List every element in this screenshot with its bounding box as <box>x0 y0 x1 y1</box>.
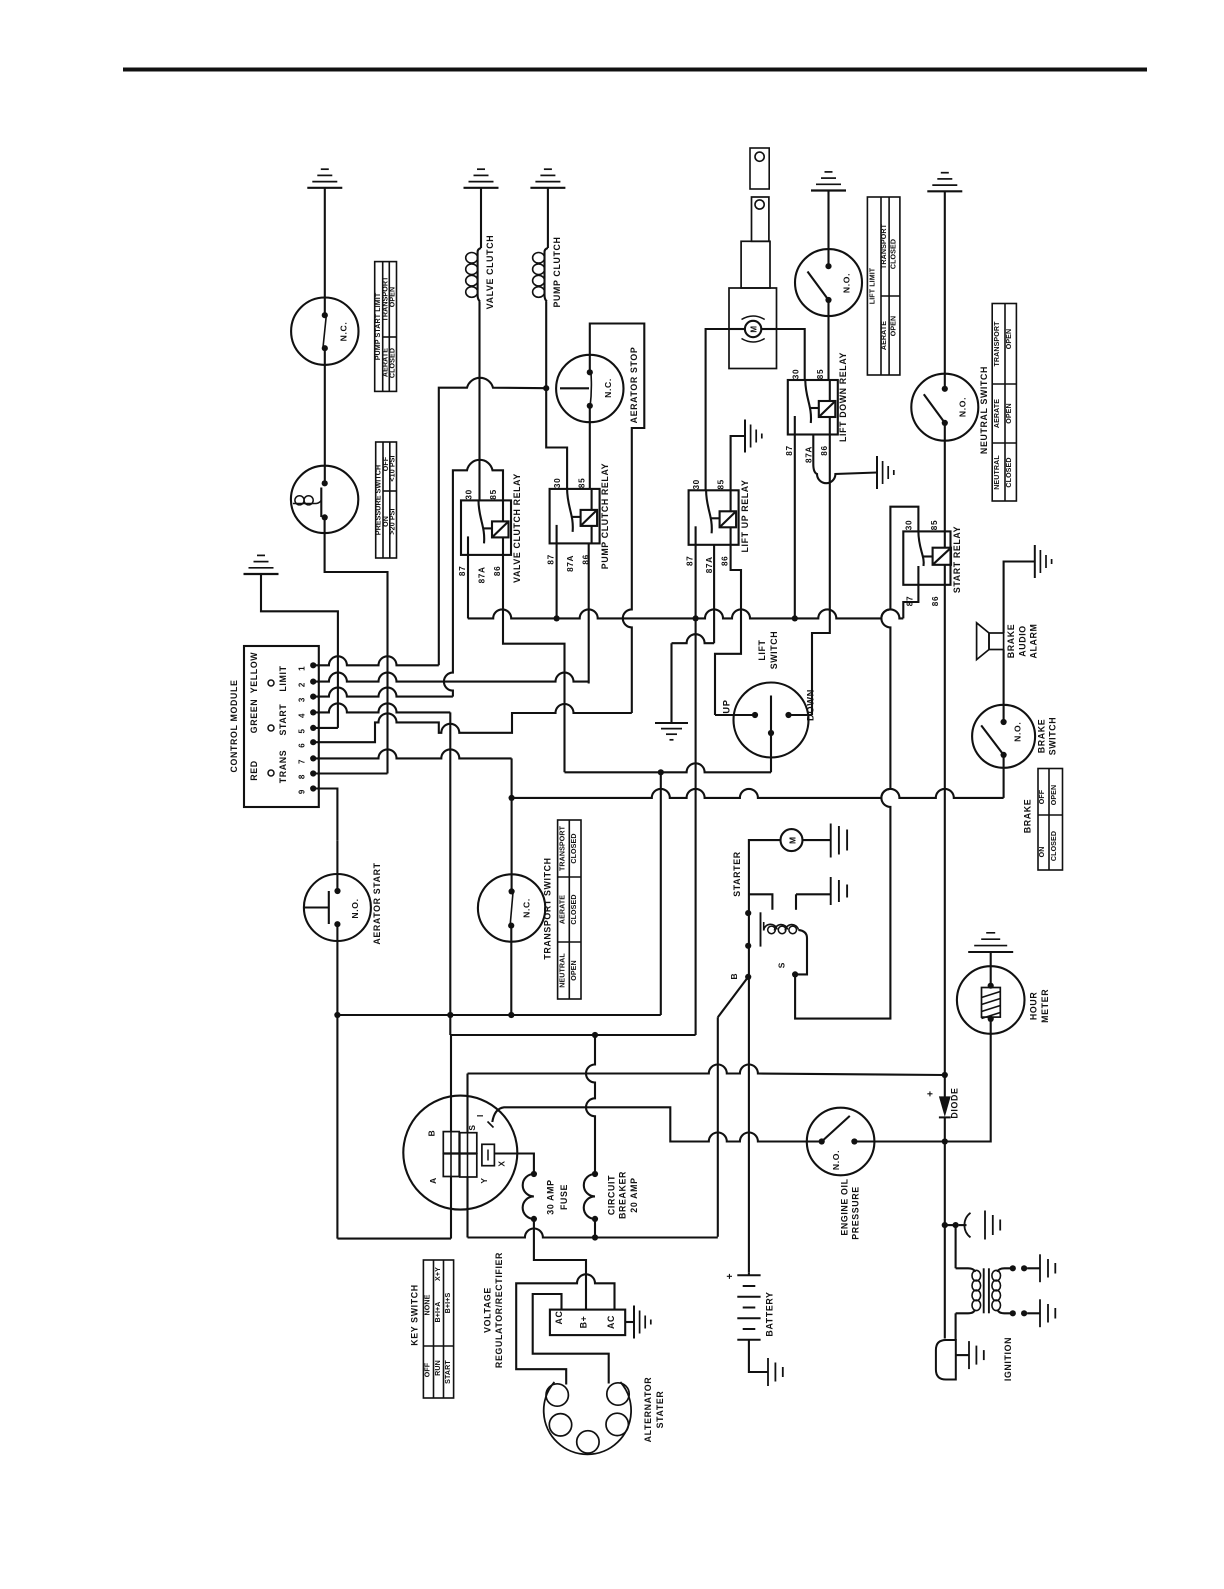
svg-text:VOLTAGE: VOLTAGE <box>482 1287 492 1333</box>
wire lift up relay 86 to lift switch UP <box>715 545 741 715</box>
svg-text:S: S <box>777 962 787 968</box>
ground (brake audio alarm) <box>1035 545 1052 578</box>
svg-text:NEUTRAL: NEUTRAL <box>558 953 566 988</box>
wire pin 1 to pump clutch node (arch over valve wire) <box>439 378 546 665</box>
meter HOUR METER <box>957 966 1025 1034</box>
wire lift down relay 87 to bus1 <box>794 435 796 619</box>
svg-text:87: 87 <box>458 566 467 576</box>
svg-text:NONE: NONE <box>424 1294 432 1315</box>
control module pin 8 <box>310 770 316 776</box>
junction dot ignition feed <box>942 1222 948 1228</box>
wire valve clutch coil to valve relay 30 <box>478 302 480 501</box>
svg-text:N.O.: N.O. <box>350 898 360 918</box>
switch TRANSPORT SWITCH (N.C.) <box>478 874 545 941</box>
svg-text:CIRCUIT: CIRCUIT <box>606 1175 616 1215</box>
control module pin 1 <box>310 662 316 668</box>
svg-text:PUMP CLUTCH RELAY: PUMP CLUTCH RELAY <box>600 463 610 569</box>
alternator stator arc <box>544 1382 631 1454</box>
svg-text:TRANSPORT: TRANSPORT <box>880 223 888 269</box>
svg-text:87A: 87A <box>566 555 575 572</box>
wire breaker bottom to main bus <box>594 1219 596 1238</box>
wire ground to hour meter <box>990 952 992 967</box>
wire pump clutch coil to junction <box>545 302 547 389</box>
ground (lift limit) <box>811 172 846 191</box>
wire solenoid to S terminal <box>795 930 807 975</box>
junction dot common rail / transport riser <box>658 769 664 775</box>
bus wire R (key A / switches) <box>337 1014 660 1016</box>
wire aerator stop bottom through pump relay coil (85/86) <box>589 406 591 489</box>
svg-text:YELLOW: YELLOW <box>249 652 259 694</box>
actuator mid section <box>741 241 770 288</box>
wire motor right to lift down relay 30 <box>777 329 805 380</box>
junction dot breaker / main bus <box>592 1234 598 1240</box>
wire riser bus1 to key-B feed <box>695 618 697 1035</box>
ground (valve clutch) <box>464 169 499 188</box>
wire key B internal <box>450 1132 452 1177</box>
LED yellow <box>268 680 274 686</box>
svg-text:PRESSURE: PRESSURE <box>851 1186 861 1240</box>
svg-text:I: I <box>475 1114 485 1117</box>
svg-text:X: X <box>497 1160 507 1166</box>
svg-text:OPEN: OPEN <box>1005 329 1013 350</box>
svg-text:M: M <box>788 836 798 844</box>
svg-text:CLOSED: CLOSED <box>1050 831 1058 861</box>
connector dot ignition <box>953 1222 959 1228</box>
svg-text:+: + <box>725 1273 736 1280</box>
svg-text:TRANS: TRANS <box>278 750 288 784</box>
relay VALVE CLUTCH RELAY <box>461 500 511 555</box>
box CONTROL MODULE <box>244 646 319 807</box>
wire lift up relay 85 to ground <box>731 436 745 490</box>
wire pin 3 to valve relay 85 riser <box>313 688 453 697</box>
svg-text:7: 7 <box>298 759 307 764</box>
wire starter ground stub <box>795 894 797 910</box>
switch LIFT LIMIT (N.O.) <box>795 249 862 316</box>
label table PRESSURE SWITCH <box>376 442 397 558</box>
junction dot R-bus pin4 riser <box>447 1012 453 1018</box>
relay START RELAY <box>903 531 950 584</box>
wire ground to lift limit switch <box>827 191 829 267</box>
svg-text:PUMP CLUTCH: PUMP CLUTCH <box>552 236 562 307</box>
svg-text:AERATOR STOP: AERATOR STOP <box>629 347 639 424</box>
wire lift down relay 87A to ground (dip under 86 wire) <box>813 435 877 484</box>
wire aerator start top <box>336 841 338 891</box>
svg-text:DIODE: DIODE <box>949 1087 959 1118</box>
label table TRANSPORT SWITCH <box>558 820 581 999</box>
svg-text:85: 85 <box>578 478 587 488</box>
connector plug (lift actuator) <box>750 148 769 189</box>
svg-text:KEY SWITCH: KEY SWITCH <box>410 1284 420 1346</box>
switch KEY SWITCH <box>403 1096 517 1210</box>
actuator upper tab <box>752 197 769 241</box>
svg-text:OPEN: OPEN <box>890 316 898 337</box>
ground (neutral switch) <box>927 173 962 192</box>
ground (secondary top) <box>1039 1254 1041 1282</box>
ground (lift down relay 87A) <box>877 456 894 489</box>
svg-text:1: 1 <box>298 666 307 671</box>
svg-text:OFF: OFF <box>424 1362 432 1377</box>
bus wire main left (key A) <box>337 1238 451 1240</box>
svg-text:Y: Y <box>479 1177 489 1183</box>
wire pin 6 jog <box>313 704 632 742</box>
svg-text:>20 PSI: >20 PSI <box>389 508 397 534</box>
svg-text:AUDIO: AUDIO <box>1017 625 1027 657</box>
starter contacts <box>745 910 751 916</box>
wire starter M left <box>749 840 781 895</box>
junction dot lift up relay 87 / bus1 <box>693 615 699 621</box>
svg-text:30: 30 <box>553 478 562 488</box>
label table LIFT LIMIT <box>867 197 900 375</box>
svg-text:30: 30 <box>465 489 474 499</box>
wire lift switch common <box>770 733 772 772</box>
wire key S/Y column <box>467 1133 469 1177</box>
wire key A down to left bus <box>450 1177 452 1239</box>
svg-text:LIFT DOWN RELAY: LIFT DOWN RELAY <box>838 352 848 442</box>
svg-text:A: A <box>428 1177 438 1184</box>
wire ground to pump start limit switch <box>324 188 326 315</box>
wire pump start limit to pressure switch <box>324 348 326 483</box>
svg-text:ON: ON <box>1038 847 1046 858</box>
svg-text:TRANSPORT: TRANSPORT <box>558 825 566 871</box>
switch AERATOR START (N.O.) <box>304 874 371 941</box>
svg-text:HOUR: HOUR <box>1028 992 1038 1021</box>
svg-text:TRANSPORT SWITCH: TRANSPORT SWITCH <box>543 857 553 959</box>
wire pump relay 87 to bus1 <box>556 544 558 618</box>
svg-text:86: 86 <box>721 556 730 566</box>
wire ground to valve clutch coil <box>480 188 482 248</box>
wire ignition capacitor link <box>945 1224 956 1226</box>
wire pin 4 to R-bus riser <box>313 703 450 712</box>
control module pin 5 <box>310 725 316 731</box>
wire regulator ground stub <box>625 1321 634 1323</box>
switch PRESSURE SWITCH <box>291 466 358 533</box>
wire alarm to brake switch <box>1003 650 1005 723</box>
switch AERATOR STOP (N.C.) <box>556 355 623 422</box>
wire oil pressure right to diode node <box>854 1140 944 1142</box>
motor M (lift) <box>745 321 761 337</box>
coil VALVE CLUTCH <box>478 248 481 302</box>
ground (voltage regulator) <box>634 1306 651 1339</box>
svg-text:87A: 87A <box>705 556 714 573</box>
ignition coil core <box>983 1268 985 1313</box>
svg-text:VALVE CLUTCH: VALVE CLUTCH <box>485 235 495 309</box>
wire alarm to ground <box>1004 562 1035 634</box>
svg-text:NEUTRAL: NEUTRAL <box>993 455 1001 490</box>
svg-text:AERATE: AERATE <box>558 895 566 924</box>
svg-text:85: 85 <box>816 369 825 379</box>
svg-text:OFF: OFF <box>1038 789 1046 804</box>
svg-text:30: 30 <box>904 520 913 530</box>
svg-text:DOWN: DOWN <box>806 689 816 721</box>
wire pin 2 to pump relay 86 <box>313 673 589 682</box>
wire pin 9 to aerator start <box>313 789 337 841</box>
svg-text:30: 30 <box>791 369 800 379</box>
ground (starter M) <box>830 824 832 858</box>
switch ENGINE OIL PRESSURE (N.O.) <box>807 1108 875 1176</box>
wire brake switch bottom to bus <box>1003 755 1005 798</box>
svg-text:AC: AC <box>606 1315 616 1329</box>
wire aerator column down <box>336 1015 338 1239</box>
svg-text:ALTERNATOR: ALTERNATOR <box>643 1377 653 1443</box>
svg-text:CLOSED: CLOSED <box>1005 457 1013 487</box>
ground (pump start limit) <box>307 169 342 188</box>
svg-text:STARTER: STARTER <box>732 851 742 896</box>
wire pin 1 <box>313 656 439 665</box>
ground (lift up relay 85) <box>745 420 762 453</box>
wire B diagonal <box>718 977 748 1017</box>
ignition coil secondary <box>992 1270 1001 1281</box>
svg-text:AERATE: AERATE <box>993 399 1001 428</box>
svg-text:N.O.: N.O. <box>842 273 852 293</box>
wire lift up relay 87A to bus2 <box>713 545 715 643</box>
wire pin 8 <box>313 772 387 774</box>
relay LIFT DOWN RELAY <box>788 380 838 435</box>
label table KEY SWITCH <box>423 1260 453 1398</box>
svg-text:FUSE: FUSE <box>559 1184 569 1210</box>
switch NEUTRAL SWITCH (N.O.) <box>911 374 978 441</box>
wire fuse bottom to regulator B+ <box>534 1219 586 1310</box>
svg-text:20 AMP: 20 AMP <box>629 1177 639 1212</box>
ground (secondary bottom) <box>1039 1299 1041 1327</box>
capacitor (ignition condenser) <box>959 1224 967 1226</box>
svg-text:87: 87 <box>547 554 556 564</box>
wire battery positive riser <box>748 977 750 1273</box>
wire pin 5 to module ground riser <box>313 727 338 729</box>
switch PUMP START LIMIT (N.C.) <box>291 298 358 365</box>
control module pin 6 <box>310 739 316 745</box>
svg-text:ENGINE OIL: ENGINE OIL <box>839 1178 849 1235</box>
svg-text:LIMIT: LIMIT <box>278 665 288 691</box>
svg-text:N.O.: N.O. <box>958 397 968 417</box>
svg-text:B+I+S: B+I+S <box>444 1293 452 1314</box>
svg-text:BREAKER: BREAKER <box>618 1171 628 1219</box>
label table PUMP START LIMIT <box>375 262 397 392</box>
ground (hour meter) <box>968 933 1013 952</box>
svg-text:CLOSED: CLOSED <box>890 239 898 269</box>
svg-text:CLOSED: CLOSED <box>570 833 578 863</box>
wire regulator AC-left to alternator <box>533 1294 609 1384</box>
svg-text:N.C.: N.C. <box>603 378 613 398</box>
svg-text:B: B <box>427 1130 437 1137</box>
svg-text:N.C.: N.C. <box>522 898 532 918</box>
svg-text:86: 86 <box>493 566 502 576</box>
motor M (starter) <box>781 829 803 851</box>
svg-text:6: 6 <box>298 743 307 748</box>
junction dot breaker riser <box>592 1032 598 1038</box>
svg-text:B: B <box>729 973 739 980</box>
wire B riser down to main bus <box>717 1017 719 1237</box>
svg-text:85: 85 <box>489 489 498 499</box>
ground (ignition switch) <box>969 1341 984 1369</box>
svg-text:9: 9 <box>298 789 307 794</box>
wire key Y down to right bus <box>466 1177 468 1238</box>
wire battery negative to ground <box>749 1340 768 1372</box>
svg-text:START: START <box>278 704 288 736</box>
wire lift down relay 86 to lift switch DOWN <box>812 435 830 716</box>
svg-text:2: 2 <box>298 682 307 687</box>
svg-text:RUN: RUN <box>434 1360 442 1376</box>
wire ground to neutral switch <box>944 191 946 388</box>
svg-text:86: 86 <box>582 554 591 564</box>
wire pressure switch to pin 8 (vertical B) <box>325 517 388 773</box>
label table NEUTRAL SWITCH <box>992 304 1016 502</box>
wire transport switch bottom <box>510 926 512 1015</box>
switch BRAKE SWITCH (N.O.) <box>972 705 1035 768</box>
svg-text:<10 PSI: <10 PSI <box>389 455 397 481</box>
svg-text:OPEN: OPEN <box>388 287 396 308</box>
wire S column feed (hour meter line) <box>468 1065 945 1076</box>
wire lift switch common rail <box>565 763 772 772</box>
wire ground to pump clutch coil <box>547 188 549 248</box>
svg-text:86: 86 <box>820 445 829 455</box>
page header rule <box>123 68 1147 72</box>
fuse 30 AMP <box>531 1171 537 1177</box>
svg-text:85: 85 <box>930 520 939 530</box>
wire starter M right to ground <box>803 839 831 841</box>
bus wire (relays 87 common) <box>468 609 904 618</box>
ignition switch (magneto kill) <box>936 1340 956 1380</box>
svg-text:X+Y: X+Y <box>434 1267 442 1281</box>
wire key I hook <box>492 1107 595 1122</box>
junction dot transport top / bus <box>509 795 515 801</box>
bus wire main right (key Y to B riser) <box>468 1229 718 1238</box>
svg-text:BRAKE: BRAKE <box>1006 624 1016 659</box>
wire pin 7 to transport switch <box>313 749 511 758</box>
svg-text:OPEN: OPEN <box>1050 785 1058 806</box>
control module pin 7 <box>310 755 316 761</box>
svg-text:87: 87 <box>686 556 695 566</box>
svg-text:SWITCH: SWITCH <box>1048 717 1058 756</box>
svg-text:BRAKE: BRAKE <box>1036 719 1046 754</box>
wire lift limit to lift down relay 85 <box>827 300 829 380</box>
switch LIFT SWITCH <box>734 683 809 758</box>
junction dot diode bottom <box>942 1138 948 1144</box>
wire I line to oil pressure <box>595 1107 822 1141</box>
wire aerator start bottom to R-bus <box>336 924 338 1015</box>
circuit breaker 20 AMP <box>592 1171 598 1177</box>
svg-text:3: 3 <box>298 697 307 702</box>
svg-text:30 AMP: 30 AMP <box>545 1179 555 1214</box>
ground (condenser) <box>984 1211 986 1240</box>
svg-text:LIFT LIMIT: LIFT LIMIT <box>869 267 877 304</box>
wire aerator stop top bypass (around label) <box>590 324 645 714</box>
wire starter B column <box>748 895 750 977</box>
svg-text:IGNITION: IGNITION <box>1003 1337 1013 1381</box>
wire motor left to lift up relay 30 <box>706 329 729 490</box>
wire pin 3 riser to valve relay 85 (arch over valve wire) <box>444 460 503 697</box>
svg-text:LIFT: LIFT <box>757 639 767 660</box>
wire start relay 87 to bus1 <box>903 585 918 619</box>
svg-text:STATER: STATER <box>655 1391 665 1429</box>
svg-text:ALARM: ALARM <box>1029 623 1039 658</box>
wire R-bus to key B column <box>449 1015 451 1035</box>
LED green <box>268 725 274 731</box>
svg-text:REGULATOR/RECTIFIER: REGULATOR/RECTIFIER <box>494 1252 504 1368</box>
junction dot R-bus aerator start <box>334 1012 340 1018</box>
svg-text:30: 30 <box>692 479 701 489</box>
wire S to start relay 30 <box>795 507 918 1019</box>
svg-text:5: 5 <box>298 728 307 733</box>
junction dot pump clutch node <box>543 385 549 391</box>
wire riser pin5 to ground <box>261 574 338 728</box>
wire hour meter bottom <box>945 1019 991 1142</box>
svg-text:AC: AC <box>554 1310 564 1324</box>
svg-text:OPEN: OPEN <box>570 960 578 981</box>
control module pin 3 <box>310 694 316 700</box>
ground (control module) <box>244 555 279 574</box>
wire riser common rail to R-bus <box>660 772 662 1015</box>
ignition coil primary <box>955 1225 957 1268</box>
svg-text:LIFT UP RELAY: LIFT UP RELAY <box>740 480 750 553</box>
battery BATTERY <box>748 1273 750 1276</box>
svg-text:4: 4 <box>298 713 307 718</box>
svg-text:N.C.: N.C. <box>339 322 349 342</box>
svg-text:B+: B+ <box>579 1316 589 1329</box>
svg-text:CONTROL MODULE: CONTROL MODULE <box>229 680 239 773</box>
terminal B (starter) <box>745 974 751 980</box>
wire valve relay 87 to bus1 <box>467 555 469 619</box>
box VOLTAGE REGULATOR/RECTIFIER <box>550 1310 625 1336</box>
svg-text:RED: RED <box>249 760 259 781</box>
svg-text:OPEN: OPEN <box>1005 403 1013 424</box>
control module pin 2 <box>310 679 316 685</box>
wire pump clutch node to pump relay 30 <box>546 388 567 489</box>
svg-text:87: 87 <box>785 445 794 455</box>
wire valve relay 86 jog to lift-switch common <box>503 555 565 772</box>
svg-text:START RELAY: START RELAY <box>952 526 962 593</box>
ground (battery) <box>768 1358 783 1386</box>
svg-text:M: M <box>750 325 759 332</box>
svg-text:SWITCH: SWITCH <box>769 631 779 670</box>
svg-text:CLOSED: CLOSED <box>388 348 396 378</box>
svg-text:AERATOR START: AERATOR START <box>372 862 382 944</box>
svg-text:87A: 87A <box>478 566 487 583</box>
wire diode to ignition <box>944 1142 946 1339</box>
LED red <box>268 770 274 776</box>
svg-text:TRANSPORT: TRANSPORT <box>993 321 1001 367</box>
svg-text:B+I+A: B+I+A <box>434 1301 442 1322</box>
actuator motor body <box>729 288 777 369</box>
svg-text:86: 86 <box>931 596 940 606</box>
bus wire key-B feed <box>450 1034 695 1036</box>
control module pin 4 <box>310 709 316 715</box>
diode DIODE <box>944 1075 946 1097</box>
wire starter upper stub <box>749 894 773 910</box>
junction dot R-bus transport <box>508 1012 514 1018</box>
junction dot lift down relay 87 / bus1 <box>792 615 798 621</box>
ground (lift up relay 87A) <box>655 723 688 740</box>
connector dots secondary bottom <box>1010 1310 1016 1316</box>
wire key X to fuse <box>494 1154 534 1175</box>
junction dot pump relay 87 / bus1 <box>554 615 560 621</box>
terminal S (starter) <box>792 971 798 977</box>
bus wire (transport/brake) <box>512 789 1004 798</box>
svg-text:BATTERY: BATTERY <box>765 1291 775 1336</box>
svg-text:8: 8 <box>298 774 307 779</box>
control module pin 9 <box>310 785 316 791</box>
ground (starter solenoid) <box>830 877 832 905</box>
label table BRAKE <box>1038 769 1063 871</box>
svg-text:START: START <box>444 1360 452 1384</box>
solenoid coil (starter) <box>768 926 776 934</box>
coil PUMP CLUTCH <box>545 248 548 302</box>
ground (pump clutch) <box>530 169 565 188</box>
connector dots secondary top <box>1010 1265 1016 1271</box>
svg-text:BRAKE: BRAKE <box>1023 799 1033 834</box>
svg-text:GREEN: GREEN <box>249 699 259 734</box>
svg-text:87A: 87A <box>804 446 813 463</box>
wire regulator AC-right cross link <box>516 1274 614 1384</box>
